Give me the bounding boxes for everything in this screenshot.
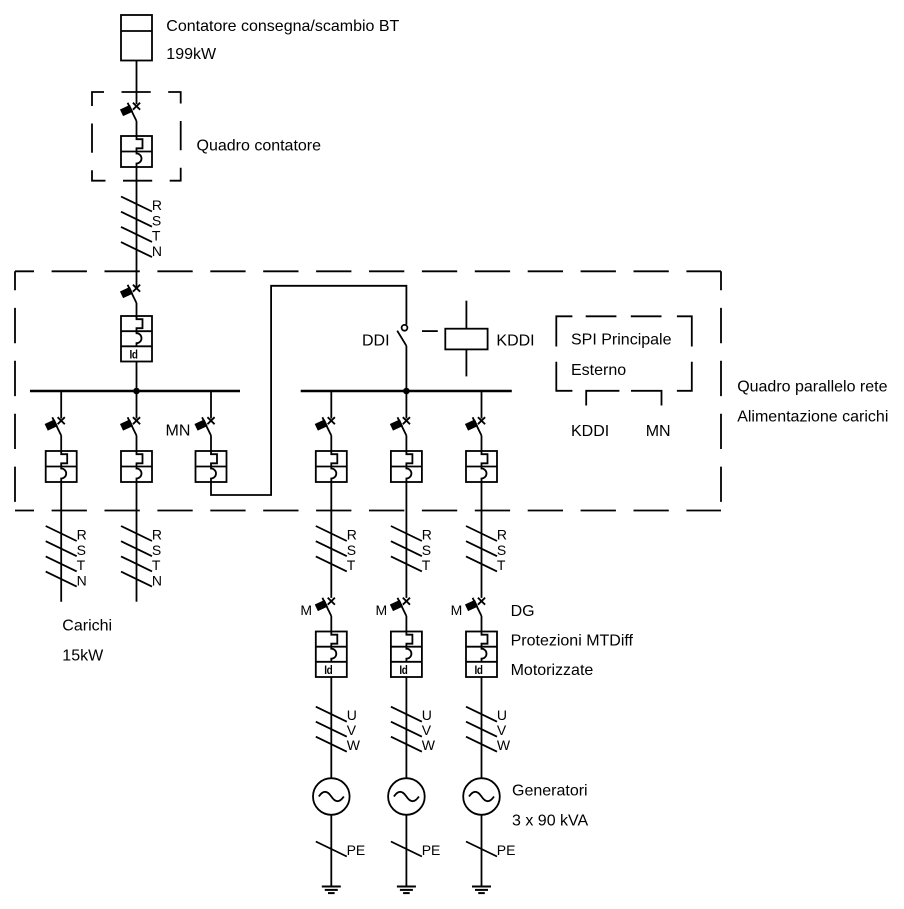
svg-text:W: W [347, 737, 361, 753]
svg-text:KDDI: KDDI [571, 423, 609, 440]
svg-text:N: N [77, 572, 87, 588]
svg-text:Id: Id [324, 663, 332, 677]
svg-text:T: T [77, 557, 86, 573]
svg-text:U: U [422, 707, 432, 723]
svg-text:M: M [300, 602, 312, 618]
svg-text:199kW: 199kW [166, 46, 217, 63]
svg-text:MN: MN [166, 422, 191, 439]
svg-text:T: T [152, 557, 161, 573]
svg-text:M: M [376, 602, 388, 618]
svg-text:PE: PE [422, 842, 441, 858]
svg-text:U: U [347, 707, 357, 723]
svg-text:R: R [152, 197, 162, 213]
svg-text:Quadro parallelo rete: Quadro parallelo rete [737, 378, 887, 395]
svg-text:Id: Id [130, 347, 138, 361]
svg-text:R: R [347, 527, 357, 543]
svg-text:N: N [152, 572, 162, 588]
svg-text:MN: MN [646, 423, 671, 440]
svg-text:N: N [152, 243, 162, 259]
svg-text:S: S [77, 542, 86, 558]
svg-text:T: T [422, 557, 431, 573]
svg-text:M: M [451, 602, 463, 618]
svg-text:KDDI: KDDI [496, 332, 534, 349]
svg-text:R: R [422, 527, 432, 543]
svg-text:Generatori: Generatori [512, 782, 588, 799]
svg-text:R: R [497, 527, 507, 543]
svg-text:Protezioni MTDiff: Protezioni MTDiff [511, 632, 634, 649]
svg-text:SPI Principale: SPI Principale [571, 332, 672, 349]
svg-text:S: S [152, 212, 161, 228]
svg-text:T: T [152, 228, 161, 244]
svg-text:15kW: 15kW [62, 648, 104, 665]
svg-text:V: V [347, 722, 357, 738]
svg-text:Esterno: Esterno [571, 362, 626, 379]
svg-text:W: W [422, 737, 436, 753]
svg-text:Motorizzate: Motorizzate [511, 662, 594, 679]
svg-text:3 x 90 kVA: 3 x 90 kVA [512, 813, 589, 830]
svg-text:S: S [497, 542, 506, 558]
svg-text:Id: Id [399, 663, 407, 677]
svg-text:V: V [422, 722, 432, 738]
svg-text:S: S [152, 542, 161, 558]
svg-text:PE: PE [497, 842, 516, 858]
svg-text:Contatore consegna/scambio BT: Contatore consegna/scambio BT [166, 18, 399, 35]
svg-text:R: R [152, 527, 162, 543]
svg-text:Quadro contatore: Quadro contatore [197, 138, 322, 155]
svg-text:U: U [497, 707, 507, 723]
svg-text:T: T [497, 557, 506, 573]
svg-text:Carichi: Carichi [62, 618, 112, 635]
svg-text:S: S [422, 542, 431, 558]
svg-text:DG: DG [511, 603, 535, 620]
svg-text:W: W [497, 737, 511, 753]
svg-text:DDI: DDI [362, 332, 390, 349]
svg-text:S: S [347, 542, 356, 558]
svg-text:PE: PE [347, 842, 366, 858]
svg-text:V: V [497, 722, 507, 738]
svg-text:T: T [347, 557, 356, 573]
svg-text:R: R [77, 527, 87, 543]
svg-text:Id: Id [475, 663, 483, 677]
svg-text:Alimentazione carichi: Alimentazione carichi [737, 408, 888, 425]
